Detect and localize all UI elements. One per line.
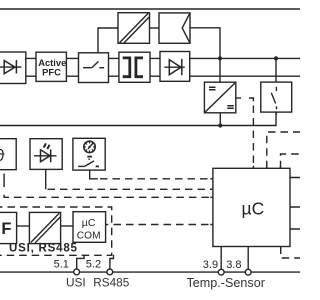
wire isolator to comparator [150,27,160,29]
dashed uC bottom to right edge [281,247,300,259]
svg-text:USI, RS485: USI, RS485 [9,243,78,255]
svg-text:F: F [1,220,11,238]
terminal 5.1 [74,255,84,275]
transformer T1 [119,52,150,82]
svg-text:RS485: RS485 [93,276,130,290]
uC edge connection ticks [210,112,280,249]
dashed theta to uC [4,174,213,198]
svg-text:ϑ: ϑ [0,147,5,165]
junction dot B [274,56,278,60]
output rectifier diode [160,52,190,82]
LED indicator block [30,139,62,170]
svg-text:µC: µC [82,217,96,229]
microcontroller uC [213,168,290,246]
dashed uC top to right edge 2 [281,154,301,168]
svg-text:Temp.-Sensor: Temp.-Sensor [187,276,265,290]
wire output return line [0,112,276,125]
output monitor gauge block [73,138,105,170]
wire top earth line [0,8,300,10]
fuse F block [0,212,17,243]
wire switch to isolator loop [98,28,118,53]
wire relay feed [275,58,277,82]
svg-text:5.1: 5.1 [54,259,69,271]
dashed uC COM to uC [106,224,213,226]
junction dot A [218,56,222,60]
wire comparator to bus and dc-dc [190,28,220,82]
wire fuse to isolator [17,225,30,227]
comparator block (chevron) [159,13,190,43]
svg-text:USI: USI [66,276,86,290]
output relay switch block [261,82,292,112]
wire top dc bus [26,57,300,59]
dc-dc converter block [204,82,235,113]
terminal 3.9 [218,247,224,276]
isolator block (hatched) [29,212,60,243]
dashed uC top to right edge 1 [267,132,300,168]
switch S1 [79,53,109,83]
input rectifier box [0,52,26,84]
uC COM block [73,212,106,243]
svg-text:3.8: 3.8 [226,259,241,271]
wire isolator to uC COM [61,225,73,227]
svg-text:3.9: 3.9 [203,259,218,271]
terminal 5.2 [107,255,114,275]
wire bottom dc bus [26,75,300,77]
svg-text:µC: µC [242,199,265,219]
junction dot C [218,123,222,127]
svg-text:COM: COM [77,230,101,241]
uC right stubs [290,178,300,230]
dashed USI group border [0,207,112,255]
terminal 3.8 [245,247,251,276]
svg-text:5.2: 5.2 [86,259,101,271]
dashed dc-dc to uC [236,98,254,168]
terminal line [0,271,300,273]
temperature sensor block [0,139,16,170]
dashed gauge to uC [90,170,213,179]
svg-text:PFC: PFC [42,66,61,77]
pfc control isolator (hatched box) [118,13,150,44]
dashed LED to uC [46,169,213,189]
active PFC block [36,52,66,81]
wire dc-dc return [219,113,221,126]
